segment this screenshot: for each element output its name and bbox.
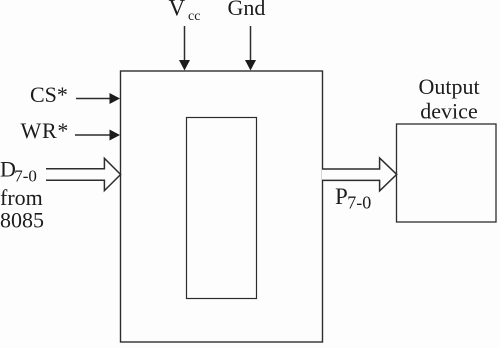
svg-text:Gnd: Gnd	[228, 0, 266, 20]
wire Gnd arrow into latch	[245, 26, 256, 71]
inner register box	[187, 118, 257, 299]
label WR*	[21, 118, 70, 143]
label P7-0	[335, 184, 371, 213]
label 8085	[0, 208, 44, 233]
bus D7-0 hollow arrow into latch	[46, 158, 121, 190]
label from	[0, 185, 43, 210]
svg-text:CS*: CS*	[30, 82, 68, 107]
svg-text:Output: Output	[418, 74, 479, 99]
svg-text:cc: cc	[188, 9, 200, 24]
wire WR* arrow into latch	[75, 130, 120, 141]
svg-text:7-0: 7-0	[347, 193, 371, 213]
label CS*	[30, 82, 68, 107]
latch box U1 (8-bit output port)	[121, 71, 323, 342]
svg-text:from: from	[0, 185, 43, 210]
bus P7-0 hollow arrow latch to output device	[322, 158, 397, 191]
label Output device	[418, 74, 479, 123]
label Vcc	[169, 0, 201, 24]
wire CS* arrow into latch	[76, 93, 120, 104]
svg-text:V: V	[169, 0, 186, 21]
svg-text:8085: 8085	[0, 208, 44, 233]
output device box	[397, 124, 497, 222]
wire Vcc supply arrow into latch	[179, 26, 190, 71]
label D7-0	[0, 157, 37, 186]
svg-text:device: device	[420, 98, 477, 123]
label Gnd	[228, 0, 266, 20]
svg-text:WR*: WR*	[21, 118, 70, 143]
svg-text:7-0: 7-0	[14, 166, 37, 185]
svg-text:P: P	[335, 184, 348, 209]
